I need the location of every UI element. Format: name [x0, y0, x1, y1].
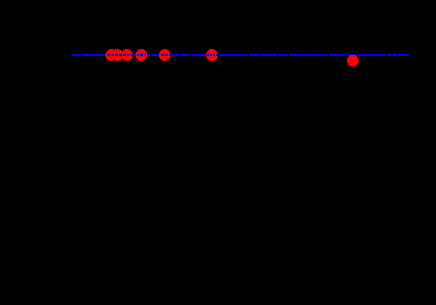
fine dash over cluster 7: [131, 54, 133, 56]
reference line dash segment 12: [278, 54, 288, 56]
reference line dash segment 2: [82, 54, 105, 56]
fine dash over cluster 5: [123, 54, 126, 56]
reference line dash segment 13: [289, 54, 317, 56]
reference line dash segment 4: [148, 54, 150, 56]
data point 5: [159, 49, 171, 61]
fine dash over point 4 c: [144, 54, 146, 56]
fine dash over cluster 2: [111, 54, 114, 56]
fine dash over point 4 a: [137, 54, 139, 56]
fine dash over cluster 3: [115, 54, 118, 56]
data point 6: [206, 49, 218, 61]
reference line dash segment 5: [151, 54, 160, 56]
reference line dash segment 19: [398, 54, 409, 56]
fine dash over point 6 c: [213, 54, 215, 56]
fine dash over cluster 1: [107, 54, 110, 56]
reference line dash segment 9: [219, 54, 248, 56]
fine dash over point 5 a: [161, 54, 164, 56]
reference line dash segment 3 (bridge): [133, 54, 137, 56]
reference line dash segment 15: [329, 54, 346, 56]
fine dash over point 5 b: [165, 54, 168, 56]
reference line dash segment 16 (over low point): [347, 54, 357, 56]
data point 2: [112, 49, 124, 61]
reference line dash segment 6: [170, 54, 179, 56]
reference line dash segment 18: [387, 54, 397, 56]
fine dash over point 4 b: [140, 54, 143, 56]
reference line dash segment 17: [358, 54, 386, 56]
fine dash over point 5 c: [169, 54, 172, 56]
fine dash over cluster 6: [127, 54, 130, 56]
fine dash over cluster 4: [119, 54, 122, 56]
reference line dash segment 1: [72, 54, 81, 56]
data point 1: [105, 49, 117, 61]
reference line dash segment 11: [260, 54, 277, 56]
data point 7 (low point): [347, 55, 359, 67]
reference line dash segment 8: [191, 54, 206, 56]
reference line dash segment 14: [318, 54, 328, 56]
reference line dash segment 7: [180, 54, 190, 56]
reference line dash stub: [67, 54, 70, 55]
fine dash over point 6 a: [207, 54, 209, 56]
fine dash over point 6 d: [216, 54, 218, 56]
data point 4: [136, 49, 148, 61]
data point 3: [121, 49, 133, 61]
reference line dash segment 10: [249, 54, 259, 56]
fine dash over point 6 b: [210, 54, 212, 56]
